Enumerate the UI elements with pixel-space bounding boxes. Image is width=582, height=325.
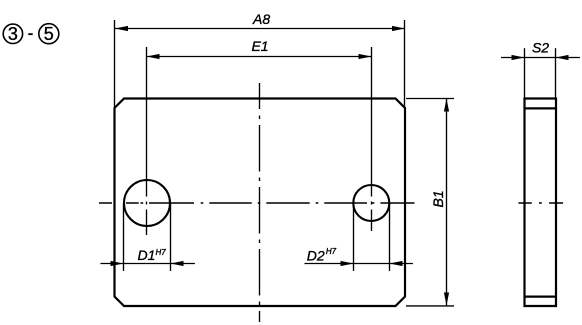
side view chamfer line top: [525, 107, 557, 109]
dimension A8: [115, 11, 406, 107]
svg-text:E1: E1: [251, 38, 268, 54]
svg-text:S2: S2: [532, 39, 549, 55]
side view centerline: [518, 202, 563, 204]
svg-text:3: 3: [8, 24, 18, 44]
dimension D2 with H7 fit: [305, 203, 413, 271]
horizontal centerline through holes: [99, 202, 415, 204]
svg-text:H7: H7: [326, 247, 337, 256]
plate outline (front view, chamfered corners): [115, 99, 406, 307]
hole D2: [353, 185, 389, 221]
svg-text:B1: B1: [430, 190, 446, 207]
dimension E1: [147, 38, 372, 59]
svg-text:5: 5: [44, 24, 54, 44]
vertical centerline at plate middle: [259, 83, 261, 322]
hole D1: [124, 180, 170, 226]
side view outline: [525, 99, 557, 307]
side view chamfer line bottom: [525, 296, 557, 298]
svg-text:A8: A8: [252, 11, 270, 27]
position number 5 (circled): [39, 24, 59, 45]
position number 3 (circled): [3, 24, 22, 44]
vertical centerline hole D2 (with E1 extension above): [371, 47, 373, 231]
svg-text:D2: D2: [307, 248, 325, 264]
dimension D1 with H7 fit: [100, 203, 194, 271]
svg-text:H7: H7: [156, 248, 167, 257]
vertical centerline hole D1 (with E1 extension above): [146, 47, 148, 235]
dimension S2: [501, 39, 580, 98]
svg-text:D1: D1: [138, 247, 156, 263]
hyphen between position numbers: [28, 33, 32, 35]
dimension B1: [406, 99, 454, 306]
